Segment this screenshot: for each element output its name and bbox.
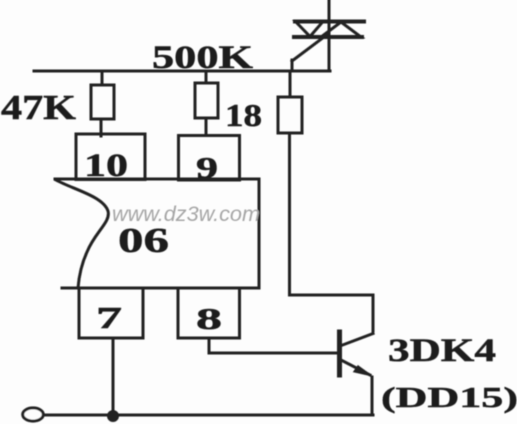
resistor (triac gate series) (278, 71, 302, 133)
wire: emitter to bottom rail (371, 377, 374, 415)
svg-text:www.dz3w.com: www.dz3w.com (112, 203, 260, 226)
wire: top rail (34, 70, 330, 73)
pin box 7 (79, 288, 143, 338)
svg-text:7: 7 (96, 300, 122, 335)
wire: resistor to collector jog (290, 133, 374, 331)
wire: triac MT2 lead (328, 0, 331, 71)
resistor 47K (91, 71, 114, 136)
wire: pin 7 to bottom rail (112, 338, 115, 415)
svg-text:8: 8 (196, 301, 222, 336)
svg-text:500K: 500K (152, 40, 253, 76)
transistor 3DK4 (340, 332, 374, 376)
triac (294, 22, 364, 38)
resistor 500K (195, 71, 218, 134)
svg-text:(DD15): (DD15) (381, 382, 517, 414)
svg-text:06: 06 (118, 221, 169, 260)
IC 06 (55, 179, 259, 288)
svg-text:18: 18 (225, 97, 262, 133)
svg-text:3DK4: 3DK4 (388, 333, 496, 369)
terminal (open circle) (23, 408, 44, 421)
junction dot (107, 410, 119, 422)
wire: bottom rail (43, 414, 373, 417)
wire: pin 8 to transistor base (209, 338, 337, 353)
wire: triac gate lead (292, 34, 328, 71)
pin box 8 (178, 288, 240, 338)
svg-text:47K: 47K (1, 88, 76, 127)
pin box 9 (179, 136, 240, 186)
pin box 10 (76, 134, 145, 184)
